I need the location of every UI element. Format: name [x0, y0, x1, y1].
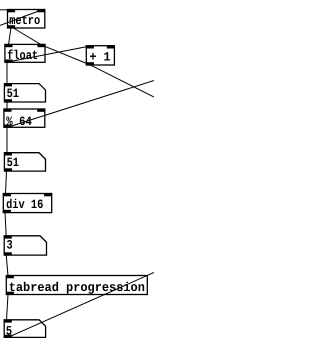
- number box 5: [4, 320, 45, 339]
- wire plus1 to offscreen right: [90, 65, 155, 97]
- svg-text:3: 3: [7, 237, 13, 252]
- svg-text:51: 51: [7, 155, 20, 170]
- wire metro to float left inlet: [9, 28, 12, 45]
- wire plus1 to float right inlet: [42, 45, 90, 64]
- object box metro: [8, 10, 45, 29]
- number box 51: [4, 84, 45, 102]
- svg-text:51: 51: [7, 86, 20, 101]
- wire number5 to offscreen right: [7, 273, 154, 338]
- object box % 64: [4, 109, 45, 129]
- wire toggle to metro left inlet: [0, 9, 11, 11]
- wire number51b to div16: [6, 171, 7, 194]
- wire offscreen to metro right inlet: [0, 10, 42, 25]
- wire float to plus1 inlet: [9, 46, 89, 62]
- wire mod64 to number51b: [6, 127, 8, 153]
- svg-text:div 16: div 16: [6, 197, 43, 212]
- svg-text:float: float: [7, 48, 38, 63]
- wire metro to float right inlet: [13, 28, 43, 46]
- number box 3: [4, 236, 46, 255]
- object box float: [5, 44, 45, 62]
- wire float to number51a: [6, 62, 8, 84]
- number box 51: [4, 153, 45, 171]
- object box + 1: [86, 46, 114, 65]
- wire div16 to number3: [5, 212, 6, 236]
- svg-text:+ 1: + 1: [90, 50, 111, 65]
- svg-text:tabread progression: tabread progression: [9, 280, 145, 295]
- wire mod64 to offscreen right: [9, 81, 155, 128]
- object box tabread progression: [6, 276, 147, 296]
- wire number3 to tabread: [6, 255, 8, 276]
- object box div 16: [3, 194, 51, 213]
- wire tabread to number5: [7, 294, 9, 320]
- wire number51a to mod64: [6, 102, 8, 110]
